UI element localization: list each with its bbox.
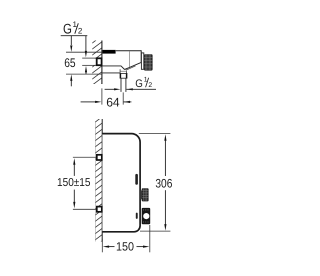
dim 64 right arrow xyxy=(124,101,132,103)
lower supply connection square xyxy=(97,207,102,212)
svg-text:2: 2 xyxy=(78,27,83,36)
svg-text:2: 2 xyxy=(148,82,152,89)
outer escutcheon bottom line xyxy=(66,73,102,75)
svg-text:G: G xyxy=(135,78,143,90)
outlet G1/2 leader arrow + underline xyxy=(126,88,156,90)
wall band left edge (bottom view) xyxy=(94,121,96,242)
body top edge (top view) xyxy=(116,50,141,52)
body chamfer sliver line xyxy=(126,66,136,70)
dim 64 wall witness line xyxy=(101,88,103,104)
G1/2 arrow up (to pipe thread bottom) xyxy=(85,66,87,74)
svg-text:G: G xyxy=(63,21,72,37)
body step diagonal (top view) xyxy=(121,66,125,70)
dim 150±15 lower witness line xyxy=(73,208,96,210)
dimension 65 lower arrow xyxy=(70,74,72,86)
outlet G1/2 bracket arrow left xyxy=(105,88,121,90)
svg-text:64: 64 xyxy=(106,95,120,109)
outlet nut (top view) xyxy=(120,73,128,78)
dim 150 right arrow xyxy=(137,246,150,248)
label G 1/2 (top-left) xyxy=(61,20,88,37)
dim 64 left arrow xyxy=(81,101,102,103)
dim 306 top witness line xyxy=(139,133,171,135)
wall hatching (top view) xyxy=(91,35,103,92)
body rear bottom edge (top view) xyxy=(103,65,122,67)
supply pipe interior (white over hatch) xyxy=(82,59,96,65)
dimension 65 upper arrow xyxy=(70,36,72,52)
upper knob (knurled, bottom view) xyxy=(140,188,148,201)
svg-text:150±15: 150±15 xyxy=(57,177,91,189)
svg-text:306: 306 xyxy=(155,177,172,191)
union elbow square xyxy=(97,58,102,65)
inner pipe bottom line xyxy=(82,64,96,66)
wall line (top view) xyxy=(101,41,103,85)
dim 150 left arrow xyxy=(103,246,115,248)
outlet throat left edge xyxy=(119,69,121,73)
outer escutcheon top line xyxy=(66,51,102,53)
dim 306 bottom witness line xyxy=(140,230,170,232)
wall hatching (bottom view) xyxy=(94,116,103,247)
thermostat body (bottom view) xyxy=(102,134,140,232)
dim 150 left witness line xyxy=(101,239,103,253)
dim 150 right witness line xyxy=(149,225,151,252)
G1/2 leader arrow down (to pipe thread top) xyxy=(85,36,87,58)
inner pipe top line xyxy=(82,57,96,59)
upper supply connection square xyxy=(97,155,102,160)
dim 306 line with arrows xyxy=(164,134,166,230)
dim 150±15 upper witness line xyxy=(73,156,96,158)
body right edge (top view) xyxy=(140,50,142,62)
wall face line (bottom view) xyxy=(101,119,103,242)
handle collar (top view) xyxy=(141,53,143,69)
body panel line (top view) xyxy=(128,51,130,67)
body chamfer (top view) xyxy=(125,63,141,70)
union lower line (top view) xyxy=(103,72,120,74)
outlet throat top line xyxy=(120,70,126,72)
knurled handle (top view) xyxy=(144,54,153,70)
outlet throat right edge xyxy=(125,71,127,74)
lower knob with circle button (bottom view) xyxy=(142,208,151,224)
outlet stub left line xyxy=(120,78,122,92)
dim 150±15 line with arrows xyxy=(73,158,75,208)
outlet stub right line xyxy=(125,78,127,92)
label G 1/2 (outlet) xyxy=(135,76,152,90)
svg-text:150: 150 xyxy=(116,240,134,254)
svg-text:65: 65 xyxy=(64,56,75,70)
supply nipple (black bar) xyxy=(103,50,116,54)
dim 64 stub-center witness line xyxy=(122,92,124,104)
small tick near lower knob xyxy=(136,213,138,219)
temperature lever tick xyxy=(135,174,138,185)
